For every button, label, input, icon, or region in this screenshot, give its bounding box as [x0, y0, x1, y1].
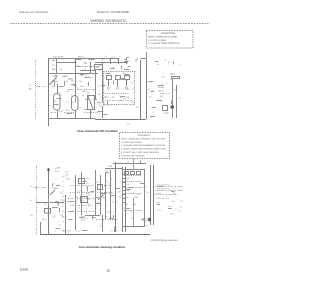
svg-text:LIGHT: LIGHT: [158, 90, 165, 93]
svg-text:P2: P2: [52, 64, 54, 67]
svg-text:C2: C2: [178, 96, 180, 99]
svg-text:P8: P8: [61, 192, 63, 195]
svg-text:W: W: [180, 189, 182, 192]
svg-text:BK-1A: BK-1A: [78, 56, 84, 59]
svg-text:3: 3: [52, 106, 53, 109]
svg-text:S1: S1: [53, 183, 55, 186]
svg-text:GY-2: GY-2: [168, 205, 172, 208]
svg-text:P2: P2: [82, 95, 84, 98]
svg-text:W: W: [59, 91, 61, 94]
svg-text:3: 3: [51, 93, 52, 96]
svg-text:NO 1: NO 1: [104, 96, 108, 99]
svg-text:GY-1: GY-1: [80, 85, 84, 88]
svg-text:NO 1: NO 1: [111, 56, 115, 59]
svg-text:T1: T1: [125, 173, 127, 176]
svg-text:C2: C2: [62, 185, 64, 188]
svg-text:P-22: P-22: [126, 88, 130, 91]
svg-text:P1: P1: [30, 185, 32, 188]
svg-text:S1: S1: [61, 110, 63, 113]
svg-text:2: 2: [58, 221, 59, 224]
svg-text:P8: P8: [96, 181, 98, 184]
svg-text:DLB R: DLB R: [52, 80, 58, 83]
svg-text:1: 1: [71, 93, 72, 96]
svg-text:1: 1: [73, 180, 74, 183]
svg-text:1: 1: [92, 200, 93, 203]
svg-text:2: 2: [59, 191, 60, 194]
svg-text:C2: C2: [131, 82, 133, 85]
svg-text:2. GLASS AT TEMP DETECTOR: 2. GLASS AT TEMP DETECTOR: [148, 42, 180, 45]
svg-text:E230: E230: [20, 268, 28, 272]
svg-text:12: 12: [60, 94, 62, 97]
svg-text:L2: L2: [179, 210, 181, 213]
svg-text:T1: T1: [103, 72, 105, 75]
svg-text:1: 1: [52, 85, 53, 88]
svg-text:LT-1: LT-1: [180, 199, 184, 202]
svg-text:RD-2: RD-2: [142, 186, 146, 189]
svg-text:MDL: MDL: [42, 218, 46, 221]
svg-text:2: 2: [158, 108, 159, 111]
svg-text:2: 2: [101, 66, 102, 69]
svg-text:OVEN: OVEN: [158, 86, 164, 89]
svg-text:W: W: [136, 106, 138, 109]
svg-text:12: 12: [63, 211, 65, 214]
svg-text:W: W: [78, 207, 80, 210]
svg-text:BK-12: BK-12: [60, 198, 65, 201]
svg-text:L2: L2: [127, 161, 129, 164]
svg-text:W: W: [132, 88, 134, 91]
svg-text:4. SELECT AND START PADS TOUC: 4. SELECT AND START PADS TOUCHED: [121, 151, 159, 154]
svg-text:C2: C2: [131, 217, 133, 220]
svg-text:Oven Schematic-Off Condition: Oven Schematic-Off Condition: [77, 129, 118, 133]
svg-text:3. DOOR LOCKED AND CONTROL TI: 3. DOOR LOCKED AND CONTROL TIMER OPER: [121, 148, 166, 151]
svg-text:1: 1: [105, 174, 106, 177]
svg-text:NOTE: CONDITIONS SHOWN AT OFF: NOTE: CONDITIONS SHOWN AT OFF SETTING: [121, 137, 165, 140]
svg-text:2. SOAKING TIME PROGRAMMED /: 2. SOAKING TIME PROGRAMMED / CLEAN SEL: [121, 144, 167, 147]
svg-text:TIMER: TIMER: [52, 187, 59, 190]
svg-text:BK-12: BK-12: [107, 104, 112, 107]
svg-text:BK-12: BK-12: [156, 192, 161, 195]
svg-text:3: 3: [137, 212, 138, 215]
svg-text:P1: P1: [88, 198, 90, 201]
svg-text:P-20: P-20: [108, 165, 112, 168]
svg-text:GY-4: GY-4: [157, 209, 161, 212]
svg-text:12: 12: [97, 85, 99, 88]
svg-text:WIRING SCHEMATIC: WIRING SCHEMATIC: [91, 19, 128, 23]
svg-text:LT-1: LT-1: [61, 216, 65, 219]
svg-text:LT-1: LT-1: [76, 230, 80, 233]
svg-text:P-26 DOOR SW: P-26 DOOR SW: [156, 188, 170, 191]
svg-text:W-4: W-4: [108, 211, 111, 214]
svg-text:SCHEMATIC: SCHEMATIC: [138, 134, 151, 137]
svg-text:LATCH SW: LATCH SW: [53, 56, 63, 59]
svg-text:P1: P1: [68, 78, 70, 81]
svg-text:T-2: T-2: [127, 123, 130, 126]
svg-text:1. DOOR SW CLOSED: 1. DOOR SW CLOSED: [121, 141, 142, 144]
svg-text:P-4: P-4: [74, 61, 77, 64]
svg-text:3: 3: [104, 101, 105, 104]
svg-text:W: W: [165, 59, 167, 62]
svg-text:NO 1: NO 1: [77, 106, 81, 109]
svg-text:P-22: P-22: [122, 207, 126, 210]
svg-text:L1 BK: L1 BK: [55, 167, 61, 170]
svg-text:S1: S1: [86, 217, 88, 220]
svg-text:P-28 LOCK SW: P-28 LOCK SW: [156, 197, 169, 200]
svg-text:M: M: [55, 100, 57, 103]
svg-text:P-22: P-22: [161, 76, 165, 79]
svg-text:CONDITIONS: CONDITIONS: [161, 32, 176, 35]
svg-text:W-4: W-4: [123, 97, 126, 100]
svg-text:RD-2: RD-2: [109, 192, 113, 195]
svg-text:RD-2: RD-2: [174, 88, 178, 91]
svg-text:TMR: TMR: [134, 196, 139, 199]
svg-text:BAKE: BAKE: [170, 73, 176, 76]
svg-text:W-4: W-4: [81, 199, 84, 202]
svg-text:1: 1: [56, 179, 57, 182]
svg-text:W: W: [30, 199, 32, 202]
svg-text:1. DOOR CLOSED: 1. DOOR CLOSED: [148, 39, 167, 42]
svg-text:P-2: P-2: [125, 203, 128, 206]
svg-text:NO 1: NO 1: [105, 169, 109, 172]
svg-text:NO 1: NO 1: [77, 190, 81, 193]
svg-text:C2: C2: [88, 194, 90, 197]
svg-text:P-22: P-22: [65, 109, 69, 112]
svg-text:Model No: CPLWB16M8E: Model No: CPLWB16M8E: [97, 10, 129, 14]
svg-text:P3: P3: [112, 96, 114, 99]
svg-text:RD-2: RD-2: [86, 177, 90, 180]
svg-text:5. RESET PAD TOUCHED: 5. RESET PAD TOUCHED: [121, 154, 145, 157]
svg-text:1: 1: [106, 215, 107, 218]
svg-text:T1: T1: [101, 215, 103, 218]
svg-text:P2: P2: [84, 61, 86, 64]
svg-text:RD-2: RD-2: [62, 195, 66, 198]
svg-text:NOTE: CONDITION OF WIRE: NOTE: CONDITION OF WIRE: [148, 36, 177, 39]
svg-text:1: 1: [163, 72, 164, 75]
svg-text:Publication No: 5995435605: Publication No: 5995435605: [19, 11, 49, 14]
svg-text:OR-3: OR-3: [82, 90, 87, 93]
svg-text:W-6: W-6: [170, 213, 173, 216]
svg-text:C52W1E-Wiring schematic: C52W1E-Wiring schematic: [151, 239, 179, 242]
svg-text:S1: S1: [104, 55, 106, 58]
svg-text:Oven Schematic-Cleaning Condit: Oven Schematic-Cleaning Condition: [79, 246, 126, 249]
svg-text:T1: T1: [116, 226, 118, 229]
svg-text:1 2 3: 1 2 3: [125, 177, 129, 180]
svg-text:C2: C2: [112, 201, 114, 204]
svg-text:2: 2: [63, 58, 64, 61]
svg-text:NO 1: NO 1: [108, 183, 112, 186]
svg-text:3: 3: [111, 178, 112, 181]
svg-text:2: 2: [105, 186, 106, 189]
svg-text:P1: P1: [62, 205, 64, 208]
svg-text:MDL-2 W: MDL-2 W: [62, 230, 71, 233]
svg-text:P1: P1: [62, 220, 64, 223]
svg-text:BK-12: BK-12: [119, 196, 124, 199]
svg-text:P6: P6: [127, 96, 129, 99]
svg-text:12: 12: [120, 98, 122, 101]
svg-text:P-22: P-22: [67, 178, 71, 181]
svg-text:2: 2: [105, 198, 106, 201]
svg-text:1: 1: [166, 195, 167, 198]
svg-text:P8: P8: [98, 112, 100, 115]
